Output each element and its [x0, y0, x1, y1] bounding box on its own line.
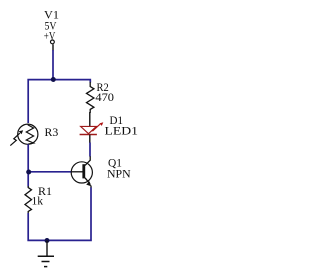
- transistor Q1 collector lead: [85, 156, 90, 165]
- diode D1 cathode bar: [80, 134, 97, 136]
- wire R1 to bottom rail: [28, 188, 91, 241]
- svg-text:LED1: LED1: [105, 124, 139, 138]
- power terminal pin: [52, 44, 54, 50]
- resistor R2: [87, 82, 94, 113]
- svg-text:1k: 1k: [32, 193, 44, 207]
- wire LED to Q1 collector: [89, 143, 91, 157]
- ground: [46, 241, 48, 256]
- resistor R1: [25, 186, 32, 214]
- junction node ground: [45, 238, 50, 243]
- transistor Q1 circle: [71, 162, 92, 183]
- wire R3 to base node: [27, 144, 29, 186]
- photoresistor R3 circle: [18, 124, 38, 144]
- photoresistor R3 zigzag: [26, 124, 33, 144]
- transistor Q1 base lead: [71, 171, 82, 173]
- wire +V to top rail: [52, 50, 54, 80]
- svg-text:470: 470: [95, 90, 114, 104]
- LED light arrow: [92, 124, 100, 131]
- transistor Q1 emitter arrowhead: [86, 181, 91, 186]
- junction node base: [26, 170, 31, 175]
- wire R2 to LED: [89, 112, 91, 126]
- diode D1 LED1 triangle: [81, 126, 97, 133]
- transistor Q1 base bar: [82, 164, 85, 178]
- wire base node to Q1 base: [28, 171, 72, 173]
- LED cathode pin: [89, 135, 91, 143]
- photoresistor R3 light arrow: [10, 133, 19, 145]
- transistor Q1 emitter lead: [85, 178, 90, 184]
- junction node top: [51, 77, 56, 82]
- transistor Q1 emitter pin: [90, 186, 92, 189]
- svg-text:NPN: NPN: [107, 166, 131, 180]
- wire top rail: [28, 80, 90, 123]
- svg-text:R3: R3: [45, 125, 59, 139]
- power terminal +V circle: [51, 40, 55, 44]
